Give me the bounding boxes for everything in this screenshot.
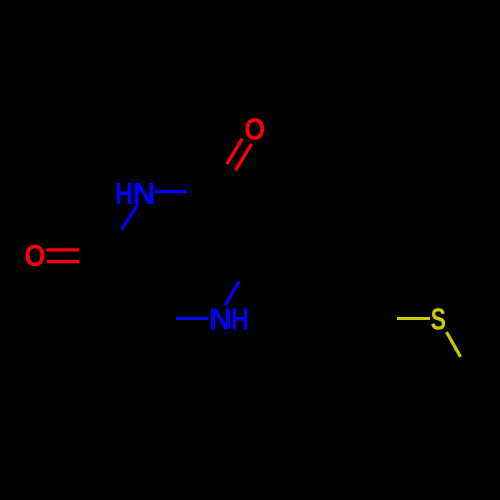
svg-text:H: H bbox=[231, 302, 249, 337]
svg-text:H: H bbox=[115, 176, 133, 211]
svg-text:S: S bbox=[431, 302, 446, 337]
svg-text:O: O bbox=[244, 112, 265, 147]
svg-text:N: N bbox=[209, 302, 232, 337]
svg-text:N: N bbox=[132, 176, 155, 211]
svg-text:O: O bbox=[25, 238, 46, 273]
